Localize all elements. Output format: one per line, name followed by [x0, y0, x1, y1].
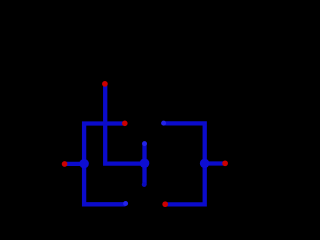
wire end cap at top of short vertical segment — [142, 141, 147, 146]
junction node J2 — [140, 158, 150, 168]
terminal dot E (right middle) — [222, 160, 228, 166]
wire short vertical segment through node J2 — [142, 144, 146, 185]
terminal dot C (left middle) — [62, 161, 68, 167]
terminal dot A (top) — [102, 81, 108, 87]
junction node J3 — [200, 159, 210, 169]
wire end cap at bottom of short vertical segment — [142, 182, 147, 187]
wire end cap right end of bottom C-shape wire — [123, 201, 128, 206]
wire from top terminal down then right to node J2 — [105, 86, 144, 164]
wire C-shape: from terminal B left, down, and right along bottom — [84, 124, 125, 205]
terminal dot B (end of upper-left horizontal) — [122, 121, 128, 127]
wire from left terminal C to node J1 — [65, 162, 85, 166]
terminal dot D (bottom middle) — [162, 201, 168, 207]
wire stub from node J3 right to terminal E — [205, 161, 225, 165]
wire end cap left end of right loop top — [161, 121, 166, 126]
junction node J1 — [79, 159, 89, 169]
wire right loop: cap end right, down, left to terminal D — [164, 123, 205, 204]
